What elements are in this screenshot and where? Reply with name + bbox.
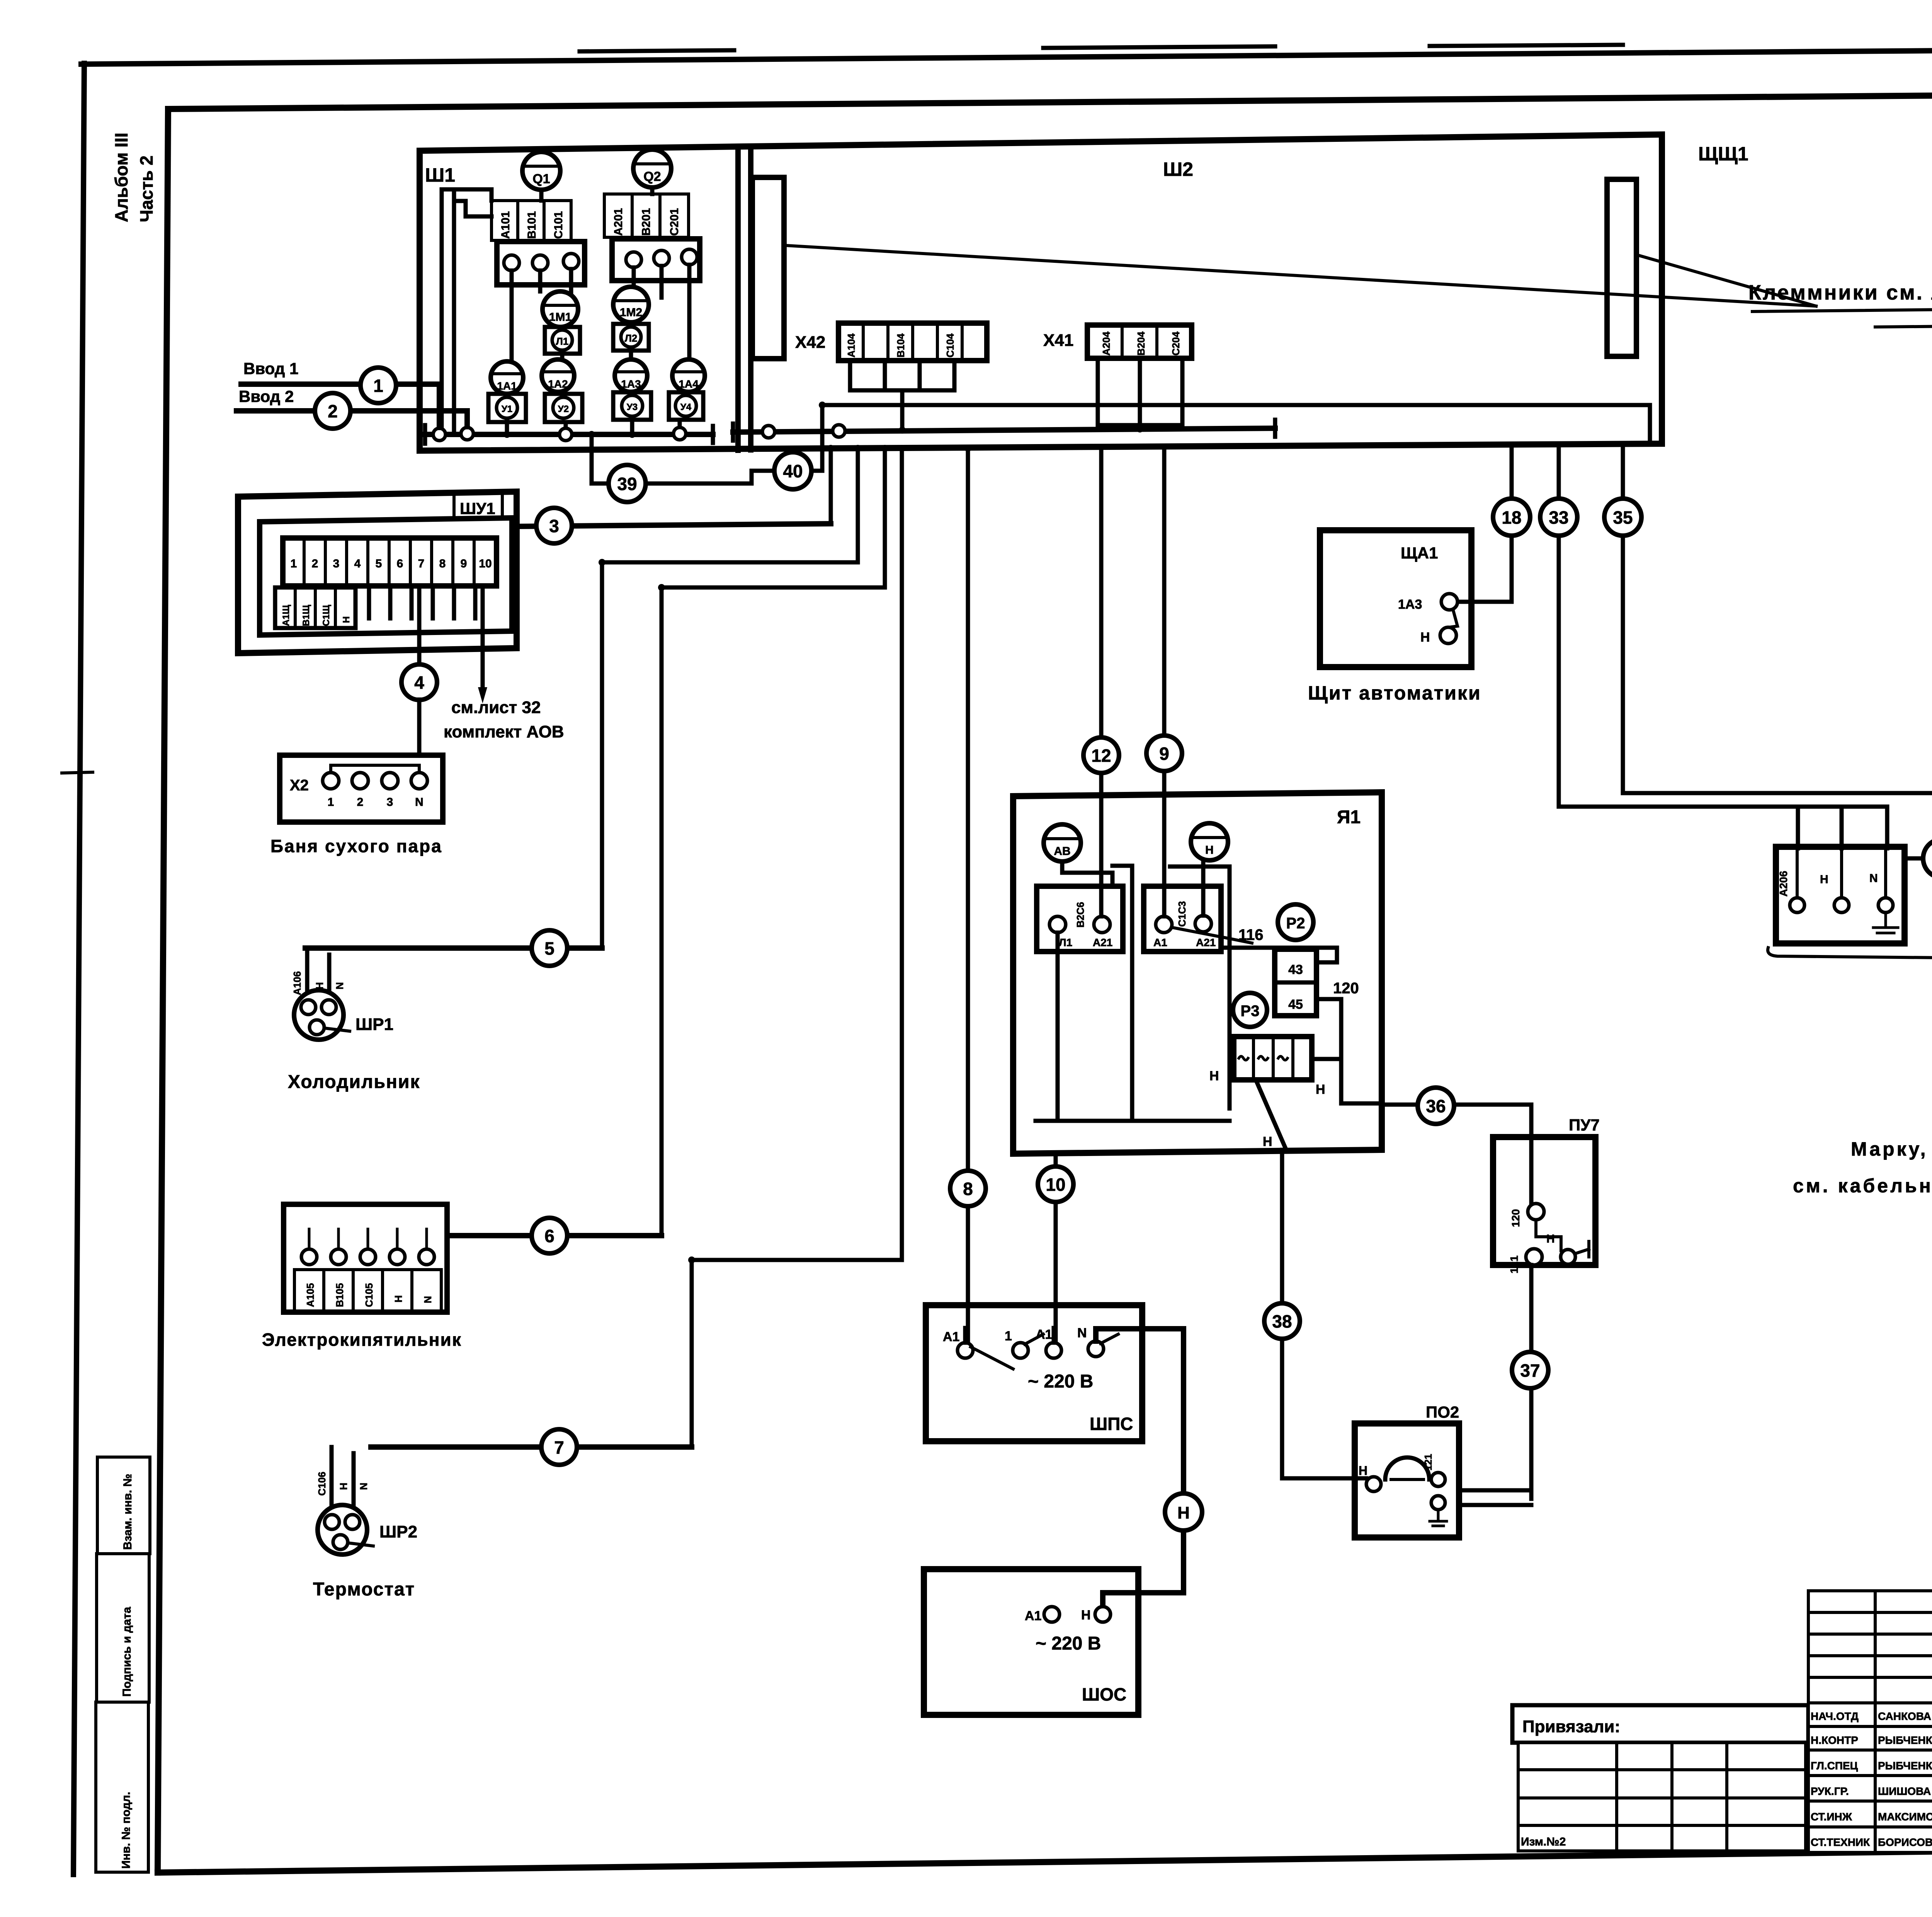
svg-text:1: 1 (328, 796, 334, 809)
svg-text:1А4: 1А4 (679, 378, 699, 390)
svg-text:Л2: Л2 (625, 332, 638, 344)
svg-text:А106: А106 (291, 971, 303, 995)
svg-text:1: 1 (1005, 1329, 1012, 1343)
svg-text:НАЧ.ОТД: НАЧ.ОТД (1811, 1710, 1859, 1722)
svg-text:1А1: 1А1 (497, 380, 517, 392)
svg-text:С105: С105 (363, 1283, 375, 1307)
svg-text:1М1: 1М1 (549, 311, 571, 323)
svg-text:А101: А101 (499, 211, 512, 239)
svg-text:СТ.ИНЖ: СТ.ИНЖ (1811, 1811, 1852, 1823)
svg-text:Н: Н (341, 616, 352, 623)
svg-text:Н: Н (1359, 1464, 1367, 1478)
svg-text:Л1: Л1 (1059, 936, 1072, 948)
svg-text:А104: А104 (845, 333, 857, 358)
svg-text:3: 3 (333, 557, 340, 570)
svg-text:43: 43 (1288, 962, 1303, 977)
svg-text:121: 121 (1508, 1255, 1520, 1273)
svg-text:38: 38 (1272, 1311, 1292, 1331)
svg-text:АВ: АВ (1054, 845, 1070, 858)
svg-text:Н: Н (393, 1295, 404, 1302)
svg-text:В1Щ: В1Щ (301, 604, 311, 626)
svg-text:N: N (415, 796, 423, 809)
svg-text:А1: А1 (1036, 1327, 1052, 1342)
svg-text:Я1: Я1 (1337, 807, 1361, 827)
svg-text:2: 2 (357, 796, 364, 809)
svg-text:39: 39 (617, 474, 637, 494)
svg-text:12: 12 (1091, 746, 1111, 766)
svg-text:Привязали:: Привязали: (1522, 1717, 1620, 1736)
svg-text:А21: А21 (1196, 936, 1216, 948)
svg-text:Подпись и дата: Подпись и дата (121, 1607, 133, 1697)
svg-text:ШИШОВА: ШИШОВА (1878, 1785, 1931, 1797)
svg-text:Взам. инв. №: Взам. инв. № (121, 1474, 134, 1550)
svg-text:Ш2: Ш2 (1163, 158, 1193, 180)
svg-text:ГЛ.СПЕЦ: ГЛ.СПЕЦ (1811, 1760, 1858, 1772)
svg-text:N: N (334, 982, 345, 989)
svg-text:А206: А206 (1777, 871, 1789, 897)
svg-text:Ввод 1: Ввод 1 (243, 359, 298, 378)
svg-text:А1: А1 (943, 1330, 959, 1344)
svg-text:120: 120 (1510, 1209, 1522, 1227)
svg-text:У2: У2 (558, 404, 569, 414)
svg-text:А204: А204 (1100, 331, 1112, 356)
svg-text:Термостат: Термостат (313, 1579, 415, 1600)
svg-text:БОРИСОВА: БОРИСОВА (1878, 1836, 1932, 1848)
svg-text:2: 2 (312, 557, 318, 570)
svg-text:Н: Н (1820, 873, 1828, 886)
svg-text:8: 8 (963, 1179, 973, 1199)
svg-text:Изм.№2: Изм.№2 (1521, 1835, 1566, 1848)
svg-text:Клеммники см. лист 33: Клеммники см. лист 33 (1748, 281, 1932, 304)
svg-text:ЩЩ1: ЩЩ1 (1698, 143, 1748, 165)
svg-text:В101: В101 (526, 211, 538, 239)
svg-text:Н.КОНТР: Н.КОНТР (1811, 1734, 1858, 1746)
svg-text:120: 120 (1333, 980, 1359, 997)
svg-text:А105: А105 (304, 1283, 316, 1307)
svg-text:С201: С201 (668, 208, 681, 236)
svg-text:Электрокипятильник: Электрокипятильник (262, 1330, 462, 1350)
svg-text:Баня сухого пара: Баня сухого пара (270, 836, 442, 856)
svg-text:ШОС: ШОС (1082, 1684, 1126, 1704)
svg-text:Q2: Q2 (643, 169, 661, 184)
svg-text:37: 37 (1520, 1360, 1540, 1381)
svg-text:В204: В204 (1135, 331, 1147, 356)
svg-text:МАКСИМОВА: МАКСИМОВА (1878, 1811, 1932, 1823)
svg-text:1: 1 (291, 557, 297, 570)
svg-text:Холодильник: Холодильник (288, 1072, 420, 1092)
svg-text:3: 3 (549, 516, 559, 536)
svg-text:Инв. № подл.: Инв. № подл. (120, 1792, 133, 1869)
svg-text:33: 33 (1549, 507, 1568, 528)
svg-text:ЩА1: ЩА1 (1401, 544, 1438, 562)
svg-text:С106: С106 (316, 1472, 328, 1496)
svg-text:ШР1: ШР1 (355, 1015, 393, 1034)
svg-text:1А3: 1А3 (621, 378, 641, 390)
svg-text:ШПС: ШПС (1090, 1414, 1133, 1434)
svg-text:РУК.ГР.: РУК.ГР. (1811, 1785, 1849, 1797)
svg-text:121: 121 (1422, 1454, 1434, 1471)
svg-text:С101: С101 (552, 211, 565, 239)
svg-text:Л1: Л1 (556, 335, 569, 347)
svg-text:3: 3 (387, 796, 393, 809)
svg-text:ПО2: ПО2 (1426, 1403, 1459, 1421)
svg-text:2: 2 (328, 401, 338, 421)
svg-text:35: 35 (1613, 507, 1633, 528)
svg-text:7: 7 (418, 557, 425, 570)
svg-text:Ввод 2: Ввод 2 (239, 387, 294, 405)
svg-text:4: 4 (354, 557, 361, 570)
svg-text:У3: У3 (627, 402, 638, 412)
svg-text:В2С6: В2С6 (1075, 902, 1086, 928)
svg-text:N: N (1077, 1326, 1087, 1340)
svg-text:18: 18 (1502, 507, 1521, 528)
svg-text:~ 220 В: ~ 220 В (1028, 1371, 1093, 1392)
svg-text:10: 10 (1046, 1175, 1065, 1195)
svg-text:САНКОВА: САНКОВА (1878, 1710, 1931, 1722)
svg-text:5: 5 (544, 938, 554, 958)
svg-text:8: 8 (439, 557, 446, 570)
svg-text:Н: Н (1546, 1233, 1555, 1245)
svg-text:Q1: Q1 (532, 172, 550, 186)
svg-text:Ш1: Ш1 (425, 164, 455, 186)
svg-text:Р3: Р3 (1241, 1003, 1260, 1020)
svg-text:РЫБЧЕНКО: РЫБЧЕНКО (1878, 1760, 1932, 1772)
svg-text:В104: В104 (895, 333, 906, 358)
svg-text:~ 220 В: ~ 220 В (1036, 1633, 1101, 1654)
svg-text:1А2: 1А2 (548, 378, 568, 390)
svg-text:У4: У4 (680, 402, 692, 412)
svg-text:А201: А201 (612, 208, 625, 236)
svg-text:Щит автоматики: Щит автоматики (1308, 682, 1481, 704)
svg-text:6: 6 (397, 557, 403, 570)
svg-text:А21: А21 (1093, 936, 1112, 948)
svg-text:Н: Н (1420, 630, 1430, 645)
svg-text:36: 36 (1426, 1096, 1446, 1116)
svg-text:Н: Н (1263, 1134, 1272, 1149)
svg-text:5: 5 (376, 557, 382, 570)
svg-text:N: N (358, 1483, 369, 1490)
svg-text:Х41: Х41 (1043, 331, 1073, 350)
svg-text:4: 4 (414, 672, 424, 693)
svg-text:45: 45 (1288, 997, 1303, 1012)
svg-text:Х42: Х42 (795, 333, 825, 352)
svg-text:Х2: Х2 (290, 777, 309, 794)
svg-text:В201: В201 (640, 208, 653, 236)
svg-text:9: 9 (1159, 744, 1169, 764)
svg-text:Альбом III: Альбом III (111, 133, 131, 222)
svg-text:Р2: Р2 (1286, 915, 1305, 932)
svg-text:1М2: 1М2 (620, 306, 642, 319)
svg-text:1: 1 (373, 376, 383, 396)
svg-text:7: 7 (554, 1437, 564, 1457)
svg-text:СТ.ТЕХНИК: СТ.ТЕХНИК (1811, 1836, 1870, 1848)
svg-text:40: 40 (783, 461, 803, 481)
svg-text:ПУ7: ПУ7 (1569, 1116, 1600, 1134)
svg-text:Марку, сечение и длину провод: Марку, сечение и длину проводов и кабеле… (1851, 1138, 1932, 1160)
svg-text:1А3: 1А3 (1398, 597, 1422, 612)
svg-text:С204: С204 (1170, 331, 1182, 356)
svg-text:У1: У1 (502, 404, 512, 414)
svg-text:Н: Н (1209, 1069, 1219, 1083)
svg-text:комплект АОВ: комплект АОВ (444, 722, 564, 741)
svg-text:Н: Н (338, 1483, 349, 1490)
svg-text:С1С3: С1С3 (1176, 901, 1188, 927)
svg-text:6: 6 (544, 1226, 554, 1246)
svg-text:ШР2: ШР2 (379, 1522, 417, 1541)
svg-text:Н: Н (1177, 1503, 1190, 1522)
svg-text:см.лист 32: см.лист 32 (451, 698, 541, 717)
svg-text:А1: А1 (1153, 936, 1167, 948)
svg-text:С1Щ: С1Щ (321, 604, 332, 626)
svg-text:А1: А1 (1025, 1609, 1041, 1623)
svg-text:см. кабельный журнал лист 11: см. кабельный журнал лист 11 (1793, 1175, 1932, 1197)
svg-text:Н: Н (1316, 1082, 1325, 1097)
svg-text:ШУ1: ШУ1 (460, 499, 495, 518)
svg-text:С104: С104 (944, 333, 956, 358)
svg-text:N: N (1869, 872, 1878, 885)
svg-text:N: N (422, 1296, 434, 1303)
svg-text:9: 9 (461, 557, 467, 570)
svg-text:РЫБЧЕНКО: РЫБЧЕНКО (1878, 1734, 1932, 1746)
svg-text:10: 10 (479, 557, 492, 570)
svg-text:В105: В105 (334, 1283, 345, 1307)
svg-text:Н: Н (1081, 1608, 1091, 1622)
svg-text:А1Щ: А1Щ (281, 604, 291, 626)
svg-text:Н: Н (1205, 844, 1214, 856)
svg-text:Часть 2: Часть 2 (136, 155, 156, 222)
